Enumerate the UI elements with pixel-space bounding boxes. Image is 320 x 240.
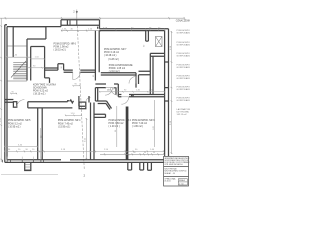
dim text 140 40 110 — [62, 29, 93, 31]
svg-text:90: 90 — [134, 152, 136, 154]
wall: top-left room outline — [13, 27, 46, 81]
corridor inner rect — [31, 47, 50, 83]
dim vertical at divider — [40, 128, 42, 159]
corridor dim 110 — [30, 58, 44, 60]
dim left vertical — [0, 18, 2, 162]
chimney block left mid — [13, 102, 16, 108]
stairs break diagonal — [11, 61, 26, 78]
svg-text:1.40: 1.40 — [62, 29, 67, 31]
svg-text:90: 90 — [61, 65, 63, 68]
svg-text:( 1.40 m2 ): ( 1.40 m2 ) — [109, 126, 120, 128]
wall: NR5/NR4 divider block — [38, 108, 43, 160]
svg-text:PODD. 1.05 m2: PODD. 1.05 m2 — [109, 68, 126, 70]
svg-text:142.15 m2: 142.15 m2 — [177, 114, 188, 116]
door arc corridor b — [111, 88, 119, 96]
dim bottom row1 — [4, 150, 164, 152]
svg-text:KORYTARZ I KLATKA: KORYTARZ I KLATKA — [33, 84, 56, 87]
svg-text:90: 90 — [26, 149, 29, 151]
svg-text:3.18: 3.18 — [61, 149, 66, 151]
wall: NR5 top-left — [5, 100, 14, 103]
wall: corridor south-west — [45, 64, 96, 72]
door dim corridor sw — [73, 85, 81, 87]
wall: right exterior — [165, 29, 169, 157]
corner room wall vertical — [150, 53, 153, 94]
title block — [164, 156, 189, 186]
dim row right corridor — [99, 91, 165, 93]
svg-text:34: 34 — [125, 152, 127, 154]
svg-text:3.54: 3.54 — [0, 117, 2, 122]
svg-text:90: 90 — [143, 44, 145, 47]
legend entries — [177, 29, 200, 116]
bottom stubs right — [128, 162, 152, 170]
room label NR5 — [8, 120, 31, 128]
door arc NR2 — [121, 97, 128, 104]
svg-text:POM.GOSPODARCZE: POM.GOSPODARCZE — [109, 64, 133, 67]
svg-text:POW. 7.45 m2: POW. 7.45 m2 — [58, 123, 74, 125]
wall: mid top band — [61, 20, 100, 29]
svg-text:GOSPODARCZE: GOSPODARCZE — [177, 77, 191, 80]
wall: right room divider horizontal — [139, 71, 151, 75]
wall: left exterior — [5, 25, 7, 163]
shaft box corner room — [156, 37, 163, 47]
svg-text:SKALA 1 : 50: SKALA 1 : 50 — [164, 172, 174, 175]
svg-text:POW. 9.22 m2: POW. 9.22 m2 — [33, 91, 49, 93]
svg-text:( 2.10 m2 ): ( 2.10 m2 ) — [109, 71, 120, 73]
top right small dims — [103, 27, 161, 29]
svg-text:05.2011: 05.2011 — [164, 181, 170, 183]
room label NR6 — [54, 44, 77, 52]
svg-text:( 18.15 m2 ): ( 18.15 m2 ) — [54, 50, 67, 52]
svg-text:SCHODOWA: SCHODOWA — [33, 87, 47, 90]
section line 2 (dashed vertical) — [77, 10, 85, 171]
dimension line top overall — [0, 17, 185, 19]
svg-text:GOSPODARCZE: GOSPODARCZE — [177, 99, 191, 102]
dim NR5 width 3.40 — [4, 146, 38, 148]
svg-text:90: 90 — [124, 90, 127, 92]
corner room wall horizontal — [150, 53, 164, 56]
svg-text:POM.GOSPOD. NR 2: POM.GOSPOD. NR 2 — [109, 120, 132, 122]
svg-text:90: 90 — [12, 91, 15, 93]
entrance stub bottom left — [25, 162, 31, 170]
svg-text:OPR. MGR INZ. ARCH.: OPR. MGR INZ. ARCH. — [164, 163, 183, 166]
room label NR7 — [104, 49, 127, 61]
svg-text:3.40: 3.40 — [18, 145, 23, 147]
room label NR2 — [109, 120, 132, 128]
svg-text:90: 90 — [135, 149, 138, 151]
wall: NR4/NR2 divider — [91, 103, 95, 160]
room label NR4 — [58, 120, 81, 128]
wall: corridor south left part — [95, 84, 118, 97]
svg-text:( 10.95 m2 ): ( 10.95 m2 ) — [8, 127, 21, 129]
svg-text:2.54: 2.54 — [104, 149, 109, 151]
dim bottom row2 — [100, 153, 164, 155]
svg-text:POM.GOSPOD. NR 6: POM.GOSPOD. NR 6 — [54, 44, 77, 46]
wall: NR7 bottom — [101, 73, 136, 75]
svg-text:3.54: 3.54 — [84, 137, 86, 142]
wall: left block top — [5, 25, 61, 27]
svg-text:1 : 50: 1 : 50 — [179, 183, 183, 185]
svg-text:GOSPODARCZE: GOSPODARCZE — [177, 32, 191, 35]
wall: right block top — [98, 27, 169, 31]
door arc NR5 — [17, 100, 25, 108]
door arc corridor — [73, 72, 80, 79]
wall: bottom exterior — [5, 160, 164, 163]
dim small corridor 110 — [65, 114, 82, 116]
svg-text:90: 90 — [153, 152, 155, 154]
svg-text:40: 40 — [71, 29, 74, 31]
room label poddasze — [109, 64, 133, 73]
svg-text:10: 10 — [32, 149, 35, 151]
wall: NR2 stub — [94, 114, 106, 117]
svg-text:90: 90 — [33, 66, 36, 68]
dim right vertical — [171, 31, 173, 154]
ground line below entrance — [1, 174, 58, 176]
wall: NR6/NR7 divider — [95, 31, 99, 81]
room label korytarz — [33, 84, 56, 96]
svg-text:20: 20 — [18, 149, 21, 151]
svg-text:OZNACZENIA POM.:: OZNACZENIA POM.: — [176, 20, 190, 23]
svg-text:34: 34 — [8, 149, 11, 151]
svg-text:GOSPODARCZE: GOSPODARCZE — [177, 44, 191, 47]
svg-text:GOSPODARCZE: GOSPODARCZE — [177, 88, 191, 91]
svg-text:1.40: 1.40 — [13, 54, 18, 56]
dim vertical NR2 — [116, 106, 118, 147]
svg-text:2: 2 — [73, 9, 75, 13]
svg-text:( 16.28 m2 ): ( 16.28 m2 ) — [104, 55, 117, 57]
stair dim line — [5, 56, 30, 58]
svg-text:1.10: 1.10 — [71, 113, 76, 115]
door arc NR4 — [86, 97, 91, 102]
door arc right mid — [129, 77, 136, 84]
corridor bend walls — [95, 88, 111, 110]
room label NR3 — [132, 120, 155, 128]
wall: right mid vertical — [136, 73, 139, 88]
svg-text:POW. 5.2 m2: POW. 5.2 m2 — [8, 123, 22, 125]
svg-text:1.10: 1.10 — [35, 57, 40, 59]
dim witness ticks above bottom wall — [7, 157, 41, 160]
svg-text:( 6.28 m2 ): ( 6.28 m2 ) — [108, 59, 119, 61]
wall: middle horizontal (NR5/NR4 top) — [28, 100, 86, 109]
svg-text:POW. 1.98 m2: POW. 1.98 m2 — [54, 47, 70, 49]
corridor dim 90 — [26, 67, 47, 69]
svg-text:SKALA: SKALA — [179, 179, 185, 182]
dim vertical NR3 — [154, 100, 156, 147]
svg-text:POW. 3.80 m2: POW. 3.80 m2 — [109, 123, 125, 125]
svg-text:( 1.80 m2 ): ( 1.80 m2 ) — [132, 126, 143, 128]
wall stub top right — [146, 31, 149, 41]
dim vertical NR4 — [86, 118, 88, 159]
svg-text:( 18.15 m2 ): ( 18.15 m2 ) — [33, 94, 46, 96]
svg-text:POM.GOSPOD. NR 4: POM.GOSPOD. NR 4 — [58, 120, 81, 122]
svg-text:POM.GOSPOD. NR 5: POM.GOSPOD. NR 5 — [8, 120, 31, 122]
svg-text:90: 90 — [75, 84, 78, 86]
chimney flue lines in top band — [70, 20, 77, 25]
svg-text:2: 2 — [84, 174, 86, 178]
wall: stair left line — [12, 39, 14, 57]
svg-text:1.40: 1.40 — [150, 149, 155, 151]
stairs treads — [7, 46, 27, 81]
wall: corridor south right part — [118, 95, 164, 97]
svg-text:34: 34 — [144, 152, 146, 154]
section marker top — [76, 11, 77, 13]
wall: NR2/NR3 divider — [126, 107, 129, 160]
wall: corridor-down verticals — [79, 96, 89, 106]
svg-text:GOSPODARCZE: GOSPODARCZE — [177, 55, 191, 58]
door arc corridor a — [105, 88, 113, 96]
svg-text:POM.GOSPOD. NR 7: POM.GOSPOD. NR 7 — [104, 49, 127, 51]
svg-text:( 15.95 m2 ): ( 15.95 m2 ) — [58, 127, 71, 129]
dim 90 stair hall — [10, 93, 17, 95]
svg-text:POM.GOSPOD. NR 3: POM.GOSPOD. NR 3 — [132, 120, 155, 122]
svg-text:1.10: 1.10 — [88, 29, 93, 31]
svg-text:POW. 7.40 m2: POW. 7.40 m2 — [132, 123, 148, 125]
dimension line top inner — [61, 30, 101, 32]
bottom wall jamb ticks — [3, 160, 44, 163]
svg-text:1.40: 1.40 — [136, 90, 141, 92]
svg-text:GOSPODARCZE: GOSPODARCZE — [177, 66, 191, 69]
svg-text:POW. 6.16 m2: POW. 6.16 m2 — [104, 52, 120, 54]
